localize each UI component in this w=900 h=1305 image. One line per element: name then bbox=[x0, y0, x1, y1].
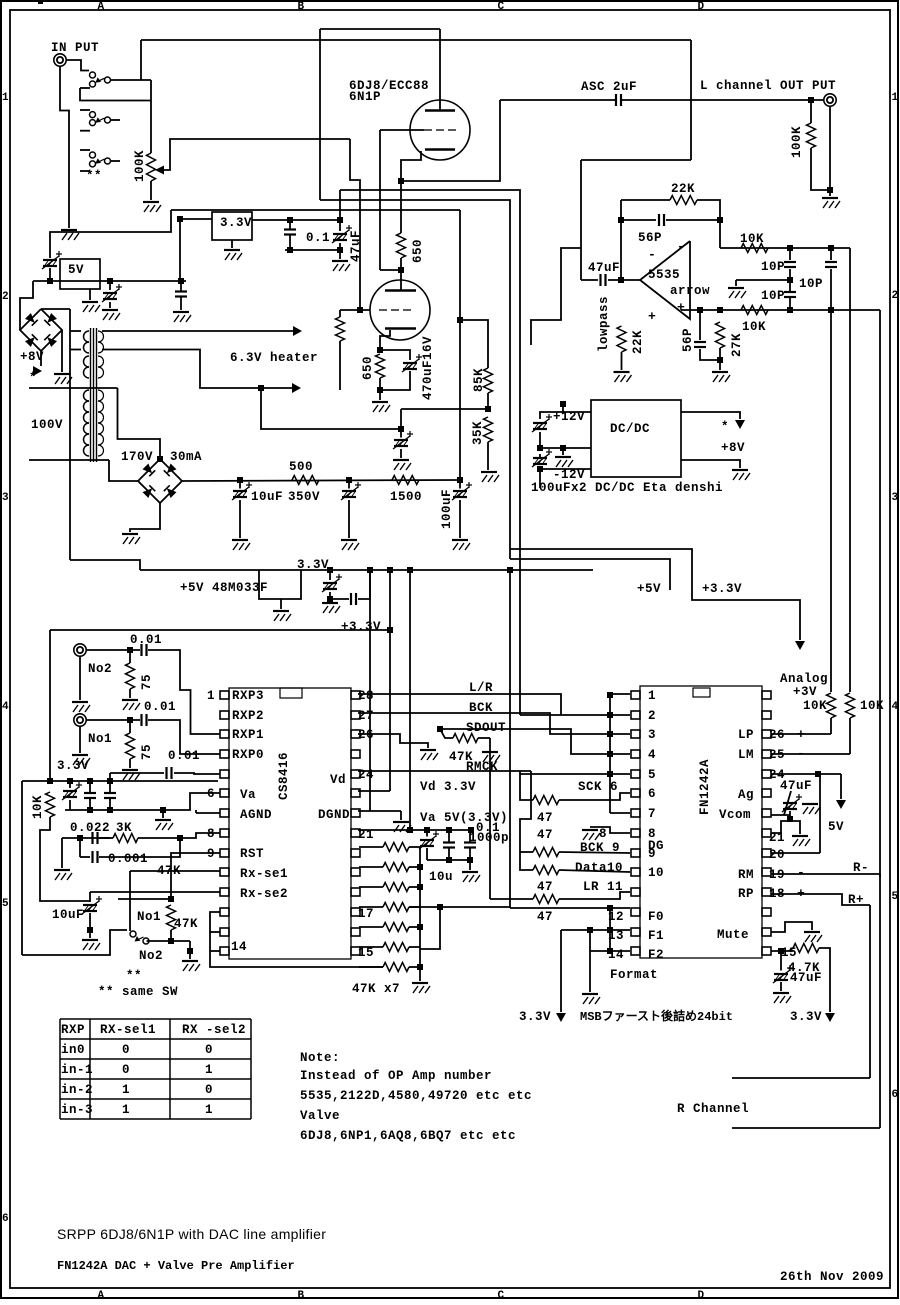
svg-text:14: 14 bbox=[231, 940, 247, 954]
svg-text:Format: Format bbox=[610, 968, 658, 982]
svg-text:IN PUT: IN PUT bbox=[51, 41, 99, 55]
svg-text:RM: RM bbox=[738, 868, 754, 882]
svg-text:47K x7: 47K x7 bbox=[352, 982, 400, 996]
svg-text:Analog: Analog bbox=[780, 672, 828, 686]
svg-text:0: 0 bbox=[205, 1083, 213, 1097]
svg-text:1: 1 bbox=[205, 1103, 213, 1117]
svg-text:10P: 10P bbox=[799, 277, 823, 291]
svg-text:3.3V: 3.3V bbox=[297, 558, 329, 572]
svg-text:470uF16V: 470uF16V bbox=[421, 336, 435, 400]
svg-text:100uF: 100uF bbox=[440, 489, 454, 529]
svg-text:1: 1 bbox=[892, 92, 899, 104]
svg-text:No1: No1 bbox=[137, 910, 161, 924]
svg-text:27: 27 bbox=[358, 709, 374, 723]
svg-text:*: * bbox=[29, 371, 37, 385]
svg-text:+3.3V: +3.3V bbox=[341, 620, 381, 634]
svg-text:12: 12 bbox=[608, 910, 624, 924]
svg-text:47: 47 bbox=[537, 880, 553, 894]
svg-text:35K: 35K bbox=[471, 421, 485, 445]
svg-text:RMCK: RMCK bbox=[466, 760, 498, 774]
svg-text:SCK 6: SCK 6 bbox=[578, 780, 618, 794]
svg-text:47K: 47K bbox=[174, 917, 198, 931]
svg-text:C: C bbox=[497, 1290, 504, 1300]
svg-text:Rx-se1: Rx-se1 bbox=[240, 867, 288, 881]
svg-text:3: 3 bbox=[2, 492, 9, 504]
svg-text:47: 47 bbox=[537, 828, 553, 842]
svg-text:8: 8 bbox=[599, 827, 607, 841]
svg-text:*: * bbox=[721, 420, 729, 434]
svg-text:10K: 10K bbox=[31, 795, 45, 819]
svg-text:+3.3V: +3.3V bbox=[702, 582, 742, 596]
svg-text:-: - bbox=[648, 247, 656, 262]
svg-text:0.01: 0.01 bbox=[168, 749, 200, 763]
svg-text:13: 13 bbox=[608, 929, 624, 943]
svg-text:10K: 10K bbox=[803, 699, 827, 713]
svg-text:10P: 10P bbox=[761, 260, 785, 274]
svg-text:3: 3 bbox=[648, 728, 656, 742]
svg-text:D: D bbox=[697, 1290, 704, 1300]
svg-text:28: 28 bbox=[358, 689, 374, 703]
svg-text:10K: 10K bbox=[740, 232, 764, 246]
svg-text:RST: RST bbox=[240, 847, 264, 861]
svg-text:3.3V: 3.3V bbox=[790, 1010, 822, 1024]
svg-text:3.3V: 3.3V bbox=[220, 216, 252, 230]
svg-text:17: 17 bbox=[358, 907, 374, 921]
svg-text:DG: DG bbox=[648, 839, 664, 853]
svg-text:Valve: Valve bbox=[300, 1109, 340, 1123]
svg-text:15: 15 bbox=[358, 946, 374, 960]
svg-text:47uF: 47uF bbox=[780, 779, 812, 793]
svg-text:Note:: Note: bbox=[300, 1051, 340, 1065]
svg-text:2: 2 bbox=[2, 291, 9, 303]
svg-text:9: 9 bbox=[207, 847, 215, 861]
svg-text:Data10: Data10 bbox=[575, 861, 623, 875]
svg-text:3.3V: 3.3V bbox=[519, 1010, 551, 1024]
svg-text:19: 19 bbox=[769, 868, 785, 882]
svg-text:3.3V: 3.3V bbox=[57, 759, 89, 773]
svg-text:6: 6 bbox=[648, 787, 656, 801]
svg-text:56P: 56P bbox=[638, 231, 662, 245]
svg-text:2: 2 bbox=[892, 290, 899, 302]
svg-text:DC/DC: DC/DC bbox=[610, 422, 650, 436]
svg-text:No2: No2 bbox=[88, 662, 112, 676]
svg-text:1: 1 bbox=[122, 1103, 130, 1117]
svg-text:FN1242A: FN1242A bbox=[698, 759, 712, 815]
svg-text:22K: 22K bbox=[671, 182, 695, 196]
svg-text:LR 11: LR 11 bbox=[583, 880, 623, 894]
svg-text:6: 6 bbox=[892, 1089, 899, 1101]
svg-text:26: 26 bbox=[769, 728, 785, 742]
svg-text:47uF: 47uF bbox=[588, 261, 620, 275]
svg-text:1: 1 bbox=[122, 1083, 130, 1097]
svg-text:20: 20 bbox=[769, 848, 785, 862]
svg-text:Instead of OP Amp number: Instead of OP Amp number bbox=[300, 1069, 492, 1083]
svg-text:No2: No2 bbox=[139, 949, 163, 963]
svg-text:75: 75 bbox=[140, 744, 154, 760]
svg-text:Mute: Mute bbox=[717, 928, 749, 942]
svg-text:0: 0 bbox=[122, 1063, 130, 1077]
svg-text:ASC 2uF: ASC 2uF bbox=[581, 80, 637, 94]
svg-text:10K: 10K bbox=[742, 320, 766, 334]
svg-text:0: 0 bbox=[122, 1043, 130, 1057]
svg-text:26th Nov 2009: 26th Nov 2009 bbox=[780, 1270, 884, 1284]
svg-text:+5V 48M033F: +5V 48M033F bbox=[180, 581, 268, 595]
svg-text:4: 4 bbox=[2, 701, 9, 713]
svg-text:CS8416: CS8416 bbox=[277, 752, 291, 800]
svg-text:in-2: in-2 bbox=[61, 1083, 93, 1097]
svg-text:R-: R- bbox=[853, 861, 869, 875]
svg-text:+: + bbox=[648, 309, 656, 324]
svg-text:+8V: +8V bbox=[721, 441, 745, 455]
svg-text:5V: 5V bbox=[68, 263, 84, 277]
svg-text:SRPP 6DJ8/6N1P with DAC line a: SRPP 6DJ8/6N1P with DAC line amplifier bbox=[57, 1226, 326, 1242]
svg-text:5535,2122D,4580,49720 etc etc: 5535,2122D,4580,49720 etc etc bbox=[300, 1089, 532, 1103]
svg-text:LP: LP bbox=[738, 728, 754, 742]
svg-text:2: 2 bbox=[648, 709, 656, 723]
svg-text:0: 0 bbox=[205, 1043, 213, 1057]
svg-text:100uFx2 DC/DC Eta denshi: 100uFx2 DC/DC Eta denshi bbox=[531, 481, 723, 495]
svg-text:RXP0: RXP0 bbox=[232, 748, 264, 762]
svg-text:RX -sel2: RX -sel2 bbox=[182, 1023, 246, 1037]
svg-text:1000p: 1000p bbox=[469, 831, 509, 845]
svg-text:10P: 10P bbox=[761, 289, 785, 303]
svg-text:10uF: 10uF bbox=[251, 490, 283, 504]
svg-text:DGND: DGND bbox=[318, 808, 350, 822]
svg-text:100K: 100K bbox=[790, 126, 804, 158]
svg-text:lowpass: lowpass bbox=[597, 296, 611, 352]
svg-text:arrow: arrow bbox=[670, 284, 710, 298]
svg-text:7: 7 bbox=[648, 807, 656, 821]
svg-text:170V: 170V bbox=[121, 450, 153, 464]
svg-text:10uF: 10uF bbox=[52, 908, 84, 922]
svg-text:5V: 5V bbox=[828, 820, 844, 834]
svg-text:1: 1 bbox=[205, 1063, 213, 1077]
svg-text:1: 1 bbox=[2, 92, 9, 104]
svg-text:-12V: -12V bbox=[553, 468, 585, 482]
svg-text:1500: 1500 bbox=[390, 490, 422, 504]
svg-text:47: 47 bbox=[537, 910, 553, 924]
svg-text:Rx-se2: Rx-se2 bbox=[240, 887, 288, 901]
svg-text:21: 21 bbox=[769, 831, 785, 845]
svg-text:+: + bbox=[677, 300, 685, 315]
svg-text:RP: RP bbox=[738, 887, 754, 901]
svg-text:in0: in0 bbox=[61, 1043, 85, 1057]
svg-text:5535: 5535 bbox=[648, 268, 680, 282]
svg-text:LM: LM bbox=[738, 748, 754, 762]
svg-text:5: 5 bbox=[648, 768, 656, 782]
svg-text:1: 1 bbox=[648, 689, 656, 703]
svg-text:1: 1 bbox=[207, 689, 215, 703]
svg-text:6N1P: 6N1P bbox=[349, 90, 381, 104]
svg-text:100K: 100K bbox=[133, 150, 147, 182]
svg-text:A: A bbox=[97, 1, 104, 13]
svg-text:-: - bbox=[797, 865, 805, 880]
svg-text:+3V: +3V bbox=[793, 685, 817, 699]
svg-text:0.01: 0.01 bbox=[144, 700, 176, 714]
svg-text:75: 75 bbox=[140, 674, 154, 690]
svg-text:F2: F2 bbox=[648, 948, 664, 962]
svg-text:** same SW: ** same SW bbox=[98, 985, 178, 999]
svg-text:10u: 10u bbox=[429, 870, 453, 884]
svg-text:**: ** bbox=[86, 169, 102, 183]
svg-text:6: 6 bbox=[2, 1213, 9, 1225]
svg-text:RXP2: RXP2 bbox=[232, 709, 264, 723]
svg-text:30mA: 30mA bbox=[170, 450, 202, 464]
svg-text:RX-sel1: RX-sel1 bbox=[100, 1023, 156, 1037]
svg-text:in-3: in-3 bbox=[61, 1103, 93, 1117]
svg-text:350V: 350V bbox=[288, 490, 320, 504]
svg-text:+5V: +5V bbox=[637, 582, 661, 596]
svg-text:B: B bbox=[297, 1290, 304, 1300]
svg-text:100V: 100V bbox=[31, 418, 63, 432]
svg-text:0.001: 0.001 bbox=[108, 852, 148, 866]
svg-text:650: 650 bbox=[361, 356, 375, 380]
svg-text:4: 4 bbox=[648, 748, 656, 762]
svg-text:F1: F1 bbox=[648, 929, 664, 943]
svg-text:MSBファースト後詰め24bit: MSBファースト後詰め24bit bbox=[580, 1008, 733, 1024]
svg-text:47uF: 47uF bbox=[790, 971, 822, 985]
svg-text:22K: 22K bbox=[631, 330, 645, 354]
svg-text:RXP1: RXP1 bbox=[232, 728, 264, 742]
svg-text:0.022: 0.022 bbox=[70, 821, 110, 835]
svg-text:0.1: 0.1 bbox=[306, 231, 330, 245]
svg-text:A: A bbox=[97, 1290, 104, 1300]
svg-text:26: 26 bbox=[358, 728, 374, 742]
svg-text:5: 5 bbox=[2, 898, 9, 910]
svg-text:Vcom: Vcom bbox=[719, 808, 751, 822]
svg-text:6: 6 bbox=[207, 787, 215, 801]
svg-text:56P: 56P bbox=[681, 328, 695, 352]
svg-text:F0: F0 bbox=[648, 910, 664, 924]
svg-text:10: 10 bbox=[648, 866, 664, 880]
svg-text:650: 650 bbox=[411, 239, 425, 263]
svg-text:Vd 3.3V: Vd 3.3V bbox=[420, 780, 476, 794]
svg-text:500: 500 bbox=[289, 460, 313, 474]
svg-text:No1: No1 bbox=[88, 732, 112, 746]
svg-text:B: B bbox=[297, 1, 304, 13]
svg-text:6DJ8,6NP1,6AQ8,6BQ7 etc etc: 6DJ8,6NP1,6AQ8,6BQ7 etc etc bbox=[300, 1129, 516, 1143]
svg-text:Vd: Vd bbox=[330, 773, 346, 787]
svg-text:C: C bbox=[497, 1, 504, 13]
svg-text:47uF: 47uF bbox=[349, 230, 363, 262]
svg-text:10K: 10K bbox=[860, 699, 884, 713]
svg-text:BCK: BCK bbox=[469, 701, 493, 715]
svg-text:5: 5 bbox=[892, 891, 899, 903]
svg-text:85K: 85K bbox=[472, 368, 486, 392]
svg-text:RXP: RXP bbox=[61, 1023, 85, 1037]
svg-text:AGND: AGND bbox=[240, 808, 272, 822]
svg-text:6.3V heater: 6.3V heater bbox=[230, 351, 318, 365]
svg-text:RXP3: RXP3 bbox=[232, 689, 264, 703]
svg-text:Ag: Ag bbox=[738, 788, 754, 802]
svg-text:L/R: L/R bbox=[469, 681, 493, 695]
svg-text:27K: 27K bbox=[730, 333, 744, 357]
svg-text:L channel OUT PUT: L channel OUT PUT bbox=[700, 79, 836, 93]
svg-text:8: 8 bbox=[207, 827, 215, 841]
svg-text:47: 47 bbox=[537, 811, 553, 825]
svg-text:3K: 3K bbox=[116, 821, 132, 835]
svg-text:-: - bbox=[677, 239, 685, 254]
svg-text:FN1242A DAC + Valve Pre Amplif: FN1242A DAC + Valve Pre Amplifier bbox=[57, 1259, 295, 1273]
svg-text:**: ** bbox=[126, 969, 142, 983]
svg-text:4: 4 bbox=[892, 701, 899, 713]
svg-text:0.01: 0.01 bbox=[130, 633, 162, 647]
svg-text:in-1: in-1 bbox=[61, 1063, 93, 1077]
svg-text:25: 25 bbox=[769, 748, 785, 762]
svg-text:R Channel: R Channel bbox=[677, 1102, 749, 1116]
svg-text:3: 3 bbox=[892, 492, 899, 504]
svg-text:14: 14 bbox=[608, 948, 624, 962]
svg-text:Va: Va bbox=[240, 788, 256, 802]
svg-text:D: D bbox=[697, 1, 704, 13]
